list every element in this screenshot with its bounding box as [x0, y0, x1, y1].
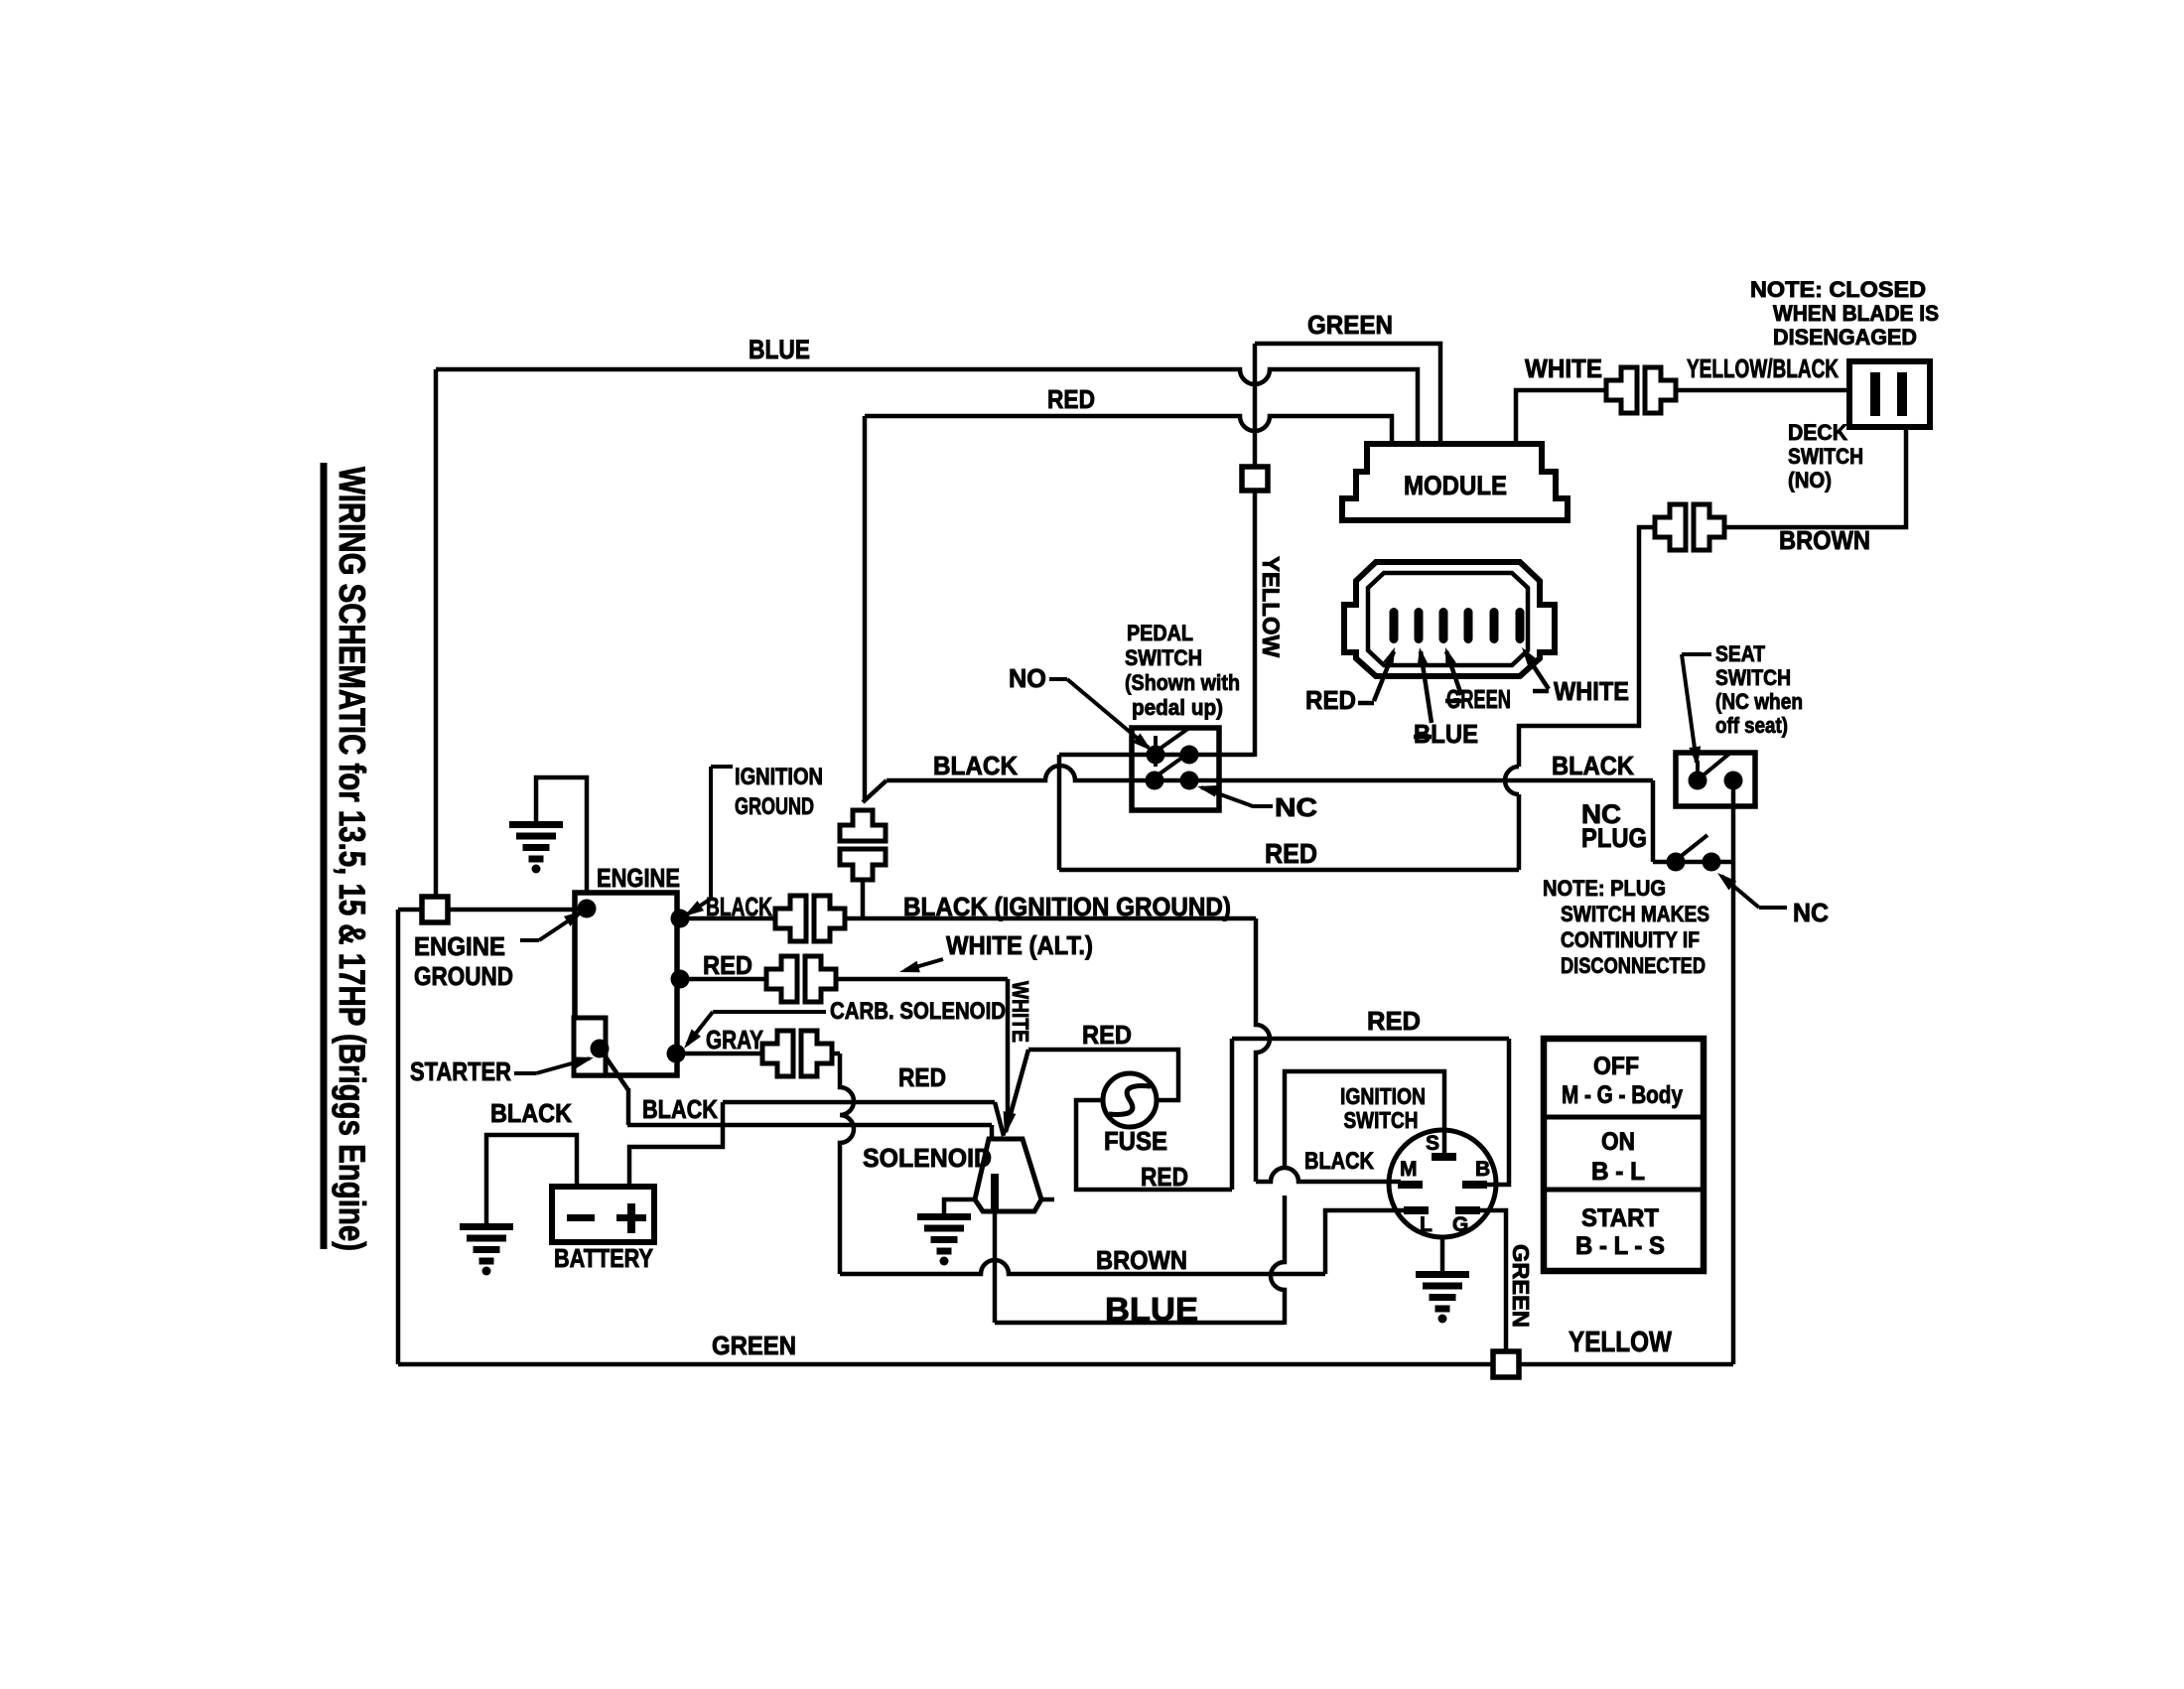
svg-text:off seat): off seat)	[1715, 713, 1788, 738]
svg-text:BLACK: BLACK	[642, 1094, 718, 1124]
svg-text:YELLOW: YELLOW	[1569, 1327, 1673, 1358]
svg-text:RED: RED	[1141, 1162, 1188, 1192]
svg-text:BLACK: BLACK	[933, 751, 1018, 780]
svg-text:WHITE (ALT.): WHITE (ALT.)	[946, 930, 1093, 960]
svg-text:BLACK: BLACK	[490, 1098, 572, 1128]
svg-text:BLACK (IGNITION GROUND): BLACK (IGNITION GROUND)	[903, 892, 1231, 921]
svg-text:NO: NO	[1009, 663, 1046, 693]
svg-text:GREEN: GREEN	[712, 1331, 796, 1360]
svg-text:PEDAL: PEDAL	[1127, 621, 1193, 645]
svg-text:FUSE: FUSE	[1104, 1126, 1167, 1156]
svg-text:GREEN: GREEN	[1508, 1244, 1534, 1328]
svg-text:BLACK: BLACK	[706, 892, 772, 921]
svg-text:BLUE: BLUE	[1414, 719, 1478, 749]
svg-text:B - L - S: B - L - S	[1575, 1232, 1665, 1260]
svg-text:(NC when: (NC when	[1715, 689, 1803, 714]
svg-text:IGNITION: IGNITION	[735, 764, 823, 790]
svg-text:SEAT: SEAT	[1715, 641, 1765, 666]
svg-text:WHITE: WHITE	[1525, 353, 1602, 383]
svg-text:RED: RED	[1305, 685, 1356, 715]
svg-text:WHEN BLADE IS: WHEN BLADE IS	[1773, 301, 1939, 326]
svg-text:ON: ON	[1601, 1128, 1635, 1156]
svg-text:GROUND: GROUND	[414, 961, 513, 991]
svg-text:OFF: OFF	[1593, 1053, 1639, 1080]
svg-text:BLUE: BLUE	[1105, 1291, 1198, 1328]
svg-text:pedal up): pedal up)	[1132, 695, 1223, 720]
svg-text:NC: NC	[1793, 898, 1829, 927]
svg-text:BLACK: BLACK	[1552, 751, 1634, 780]
svg-text:G: G	[1452, 1213, 1468, 1236]
svg-text:MODULE: MODULE	[1404, 471, 1507, 500]
svg-text:WHITE: WHITE	[1554, 676, 1629, 706]
svg-text:GREEN: GREEN	[1307, 310, 1393, 340]
svg-text:CONTINUITY IF: CONTINUITY IF	[1561, 927, 1700, 952]
svg-text:SWITCH: SWITCH	[1125, 645, 1202, 670]
svg-text:(NO): (NO)	[1788, 468, 1832, 493]
svg-text:RED: RED	[1367, 1006, 1421, 1036]
svg-text:BROWN: BROWN	[1096, 1245, 1187, 1275]
svg-text:YELLOW: YELLOW	[1257, 556, 1284, 657]
svg-text:BLACK: BLACK	[1304, 1148, 1375, 1175]
svg-text:PLUG: PLUG	[1581, 823, 1647, 853]
svg-text:RED: RED	[898, 1062, 946, 1092]
svg-text:SWITCH: SWITCH	[1715, 665, 1791, 690]
svg-text:ENGINE: ENGINE	[414, 931, 505, 961]
svg-text:START: START	[1581, 1204, 1659, 1232]
svg-text:YELLOW/BLACK: YELLOW/BLACK	[1687, 353, 1839, 383]
svg-text:DISENGAGED: DISENGAGED	[1773, 325, 1917, 350]
svg-text:M: M	[1400, 1158, 1418, 1181]
svg-text:SWITCH MAKES: SWITCH MAKES	[1561, 902, 1709, 926]
svg-text:DECK: DECK	[1788, 420, 1847, 445]
svg-text:SOLENOID: SOLENOID	[863, 1143, 992, 1173]
svg-text:CARB. SOLENOID: CARB. SOLENOID	[830, 998, 1006, 1025]
svg-text:IGNITION: IGNITION	[1340, 1083, 1426, 1109]
svg-text:L: L	[1420, 1213, 1433, 1236]
svg-text:GREEN: GREEN	[1446, 684, 1511, 714]
svg-text:(Shown with: (Shown with	[1125, 670, 1240, 695]
svg-text:RED: RED	[1047, 384, 1095, 414]
svg-text:BATTERY: BATTERY	[554, 1243, 653, 1273]
svg-text:RED: RED	[703, 950, 752, 980]
svg-text:NOTE: PLUG: NOTE: PLUG	[1543, 876, 1666, 901]
svg-text:NC: NC	[1275, 792, 1317, 822]
svg-text:STARTER: STARTER	[410, 1056, 511, 1086]
svg-text:WIRING SCHEMATIC for 13.5, 15: WIRING SCHEMATIC for 13.5, 15 & 17HP (Br…	[332, 467, 372, 1251]
svg-text:WHITE: WHITE	[1008, 981, 1033, 1043]
svg-text:DISCONNECTED: DISCONNECTED	[1561, 953, 1706, 978]
svg-text:SWITCH: SWITCH	[1788, 444, 1863, 469]
svg-text:B - L: B - L	[1591, 1158, 1645, 1186]
svg-text:GROUND: GROUND	[735, 793, 814, 820]
svg-text:BROWN: BROWN	[1779, 525, 1870, 555]
svg-text:ENGINE: ENGINE	[597, 863, 680, 893]
svg-text:BLUE: BLUE	[749, 335, 810, 364]
svg-text:GRAY: GRAY	[706, 1025, 763, 1055]
svg-text:NOTE: CLOSED: NOTE: CLOSED	[1750, 277, 1926, 302]
svg-text:RED: RED	[1265, 838, 1317, 869]
svg-text:S: S	[1426, 1132, 1439, 1155]
svg-text:B: B	[1475, 1158, 1490, 1181]
svg-text:SWITCH: SWITCH	[1344, 1107, 1419, 1133]
svg-text:RED: RED	[1082, 1020, 1132, 1050]
svg-text:M - G - Body: M - G - Body	[1562, 1081, 1683, 1109]
